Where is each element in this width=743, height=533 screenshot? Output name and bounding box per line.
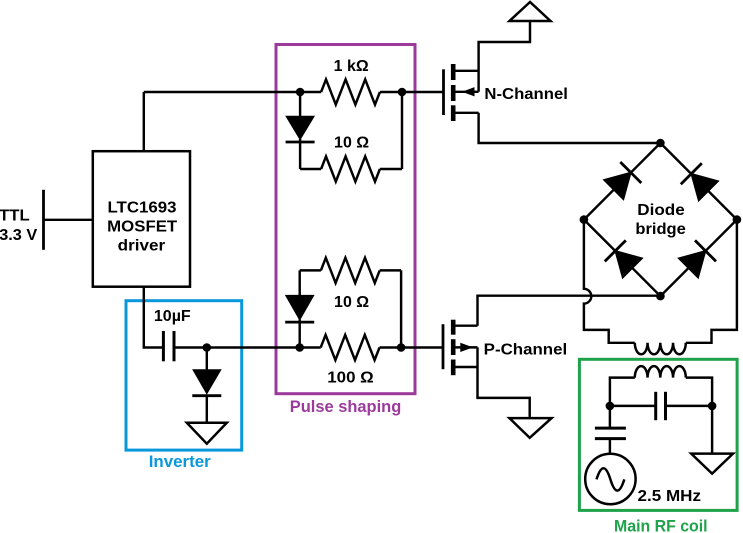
diode D3	[192, 348, 221, 423]
diode bridge edges	[584, 143, 737, 296]
bridge diode bottom-left	[605, 240, 642, 277]
resistor 1 kOhm	[321, 79, 380, 104]
wire gate net top	[144, 91, 321, 93]
svg-text:driver: driver	[118, 238, 166, 255]
svg-text:TTL: TTL	[0, 208, 30, 225]
wire U1 bottom to capacitor	[144, 287, 164, 348]
pulse shaping box	[276, 45, 415, 394]
wire TTL to U1	[44, 219, 93, 221]
svg-text:10µF: 10µF	[154, 308, 191, 325]
wire bridge left node down with hop	[584, 220, 635, 343]
wire power to N-channel drain	[479, 21, 530, 92]
capacitor C3 shunt	[595, 427, 626, 430]
inductor L2 transformer secondary	[635, 366, 686, 377]
power supply symbol	[510, 2, 551, 21]
capacitor C1 10uF	[162, 331, 165, 361]
node lower wire left	[295, 343, 304, 352]
box U1 LTC1693 MOSFET driver	[93, 151, 190, 287]
wire P drain to bridge bottom	[478, 296, 661, 326]
node tank left	[606, 402, 615, 411]
svg-text:Diode: Diode	[637, 202, 685, 219]
transistor Q2 P-Channel MOSFET	[443, 320, 478, 376]
node bridge left	[580, 215, 589, 224]
resistor 10 Ohm upper	[321, 156, 380, 181]
node top wire left	[296, 88, 305, 97]
wire upper branch of lower group	[300, 269, 321, 271]
svg-text:10 Ω: 10 Ω	[334, 135, 369, 152]
node capacitor output	[203, 343, 212, 352]
bridge diode bottom-right	[679, 240, 716, 277]
resistor 10 Ohm lower group	[321, 258, 380, 283]
node lower wire right	[397, 343, 406, 352]
sine symbol	[597, 468, 625, 490]
diode D2	[285, 270, 314, 347]
node tank right	[708, 402, 717, 411]
wire secondary right	[686, 378, 712, 454]
wire tank horizontal	[610, 405, 656, 407]
svg-text:LTC1693: LTC1693	[108, 199, 177, 216]
svg-text:2.5 MHz: 2.5 MHz	[638, 488, 702, 505]
TTL input bar	[42, 190, 45, 250]
ground inverter	[187, 423, 227, 444]
wire C3 to source	[609, 439, 611, 454]
ground main RF coil	[691, 454, 733, 474]
AC source V1	[585, 454, 635, 504]
capacitor C2 series	[654, 392, 657, 420]
svg-text:N-Channel: N-Channel	[484, 86, 568, 103]
wire gate net bottom	[174, 346, 321, 348]
wire N source to bridge top	[479, 113, 661, 143]
wire secondary left	[610, 378, 635, 429]
inverter box	[126, 301, 242, 450]
svg-text:3.3 V: 3.3 V	[0, 227, 38, 244]
node bridge right	[733, 215, 742, 224]
inductor L1 transformer primary	[635, 343, 686, 355]
transistor Q1 N-Channel MOSFET	[444, 64, 479, 121]
svg-text:Inverter: Inverter	[149, 452, 211, 471]
ground P-channel	[509, 418, 551, 438]
svg-text:bridge: bridge	[635, 221, 686, 238]
main RF coil box	[579, 359, 737, 510]
svg-text:10 Ω: 10 Ω	[334, 294, 369, 311]
bridge diode top-left	[604, 162, 641, 199]
svg-text:P-Channel: P-Channel	[484, 341, 568, 358]
svg-text:Main RF coil: Main RF coil	[614, 516, 708, 533]
node bridge bottom	[656, 292, 665, 301]
svg-text:100 Ω: 100 Ω	[327, 370, 374, 387]
wire lower branch of upper group	[300, 168, 321, 170]
diode D1	[286, 92, 315, 169]
resistor 100 Ohm	[321, 335, 380, 360]
bridge diode top-right	[681, 163, 718, 200]
wire LTC top to gate net	[143, 92, 145, 151]
node top wire right	[398, 88, 407, 97]
svg-text:Pulse shaping: Pulse shaping	[290, 397, 402, 416]
wire bridge right node down	[686, 220, 737, 343]
svg-text:MOSFET: MOSFET	[107, 219, 177, 236]
wire P source to ground	[478, 347, 530, 418]
node bridge top	[656, 139, 665, 148]
svg-text:1 kΩ: 1 kΩ	[334, 58, 369, 75]
